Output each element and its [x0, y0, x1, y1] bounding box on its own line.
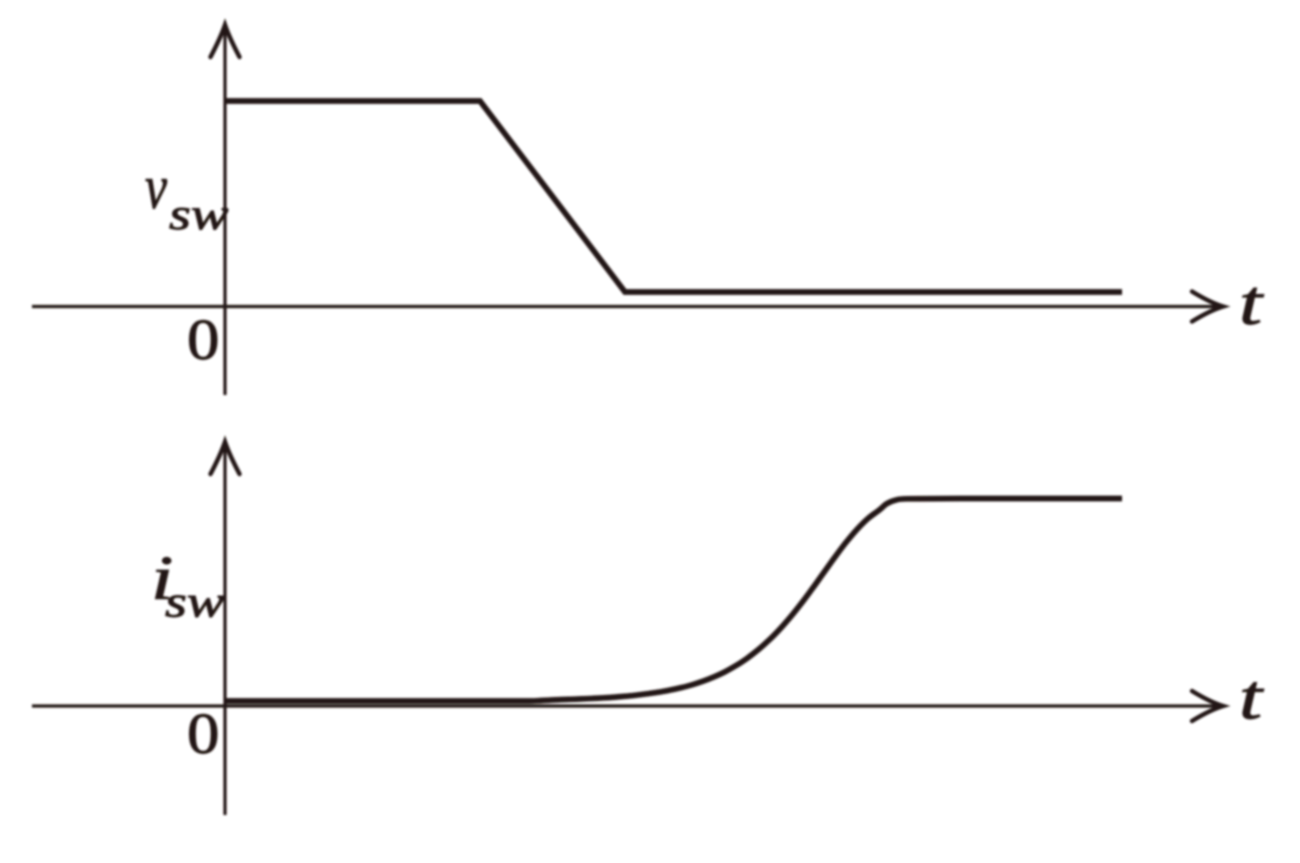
- top plot: horizontal axis arrowhead: [1192, 292, 1223, 322]
- svg-text:0: 0: [187, 308, 219, 372]
- bottom plot: horizontal axis (t axis): [32, 704, 1221, 707]
- svg-text:sw: sw: [169, 190, 229, 239]
- svg-text:0: 0: [187, 702, 219, 766]
- svg-text:t: t: [1239, 662, 1265, 733]
- top plot: horizontal axis (t axis): [32, 305, 1221, 308]
- svg-text:v: v: [145, 154, 167, 222]
- svg-text:sw: sw: [165, 577, 225, 626]
- top plot: vertical axis arrowhead: [211, 25, 240, 57]
- waveform i_sw trace: [226, 499, 1122, 702]
- waveform v_sw trace: [225, 101, 1122, 292]
- bottom plot: vertical axis arrowhead: [211, 442, 240, 474]
- top plot: vertical axis: [223, 28, 226, 395]
- svg-text:t: t: [1239, 268, 1265, 339]
- bottom plot: vertical axis: [223, 445, 226, 815]
- bottom plot: horizontal axis arrowhead: [1192, 691, 1223, 721]
